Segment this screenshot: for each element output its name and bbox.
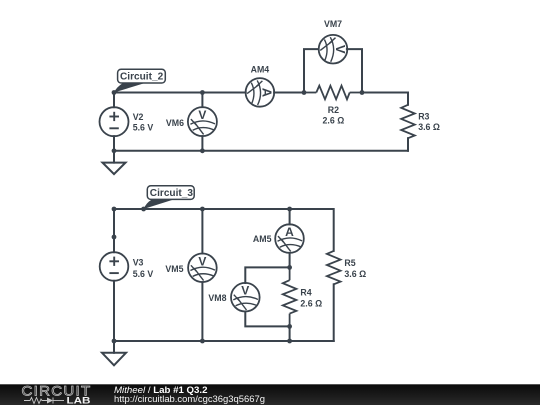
- wire AM5 top lead: [289, 209, 291, 224]
- resistor R4: [283, 267, 297, 326]
- voltage source V3: [100, 252, 129, 281]
- node top-left corner circuit 3: [112, 207, 117, 212]
- voltmeter VM6: [188, 107, 217, 136]
- wire VM5 bottom lead: [201, 282, 203, 341]
- node VM6 bottom: [200, 148, 205, 153]
- wire VM7 left branch: [304, 49, 318, 92]
- node R4 bottom / VM8 bottom: [287, 324, 292, 329]
- resistor R2 value label: [323, 105, 345, 125]
- wire VM8 top branch: [245, 267, 289, 283]
- svg-text:Circuit_2: Circuit_2: [120, 71, 164, 82]
- CircuitLab logo squiggle resistor and diode: [24, 398, 64, 404]
- footer bar: [0, 384, 540, 405]
- node R2 left / VM7 left: [302, 90, 307, 95]
- resistor R3 value label: [418, 112, 440, 132]
- node ground junction circuit 2: [112, 148, 117, 153]
- svg-text:5.6 V: 5.6 V: [133, 123, 154, 133]
- wire VM6 top lead: [201, 93, 203, 108]
- svg-text:2.6 Ω: 2.6 Ω: [323, 116, 345, 126]
- svg-text:R3: R3: [418, 112, 429, 122]
- svg-text:R4: R4: [300, 287, 311, 297]
- voltage source V2 label: [133, 112, 154, 133]
- svg-text:AM4: AM4: [251, 65, 270, 75]
- wire top rail circuit 2 AM4 to R2 node: [274, 92, 304, 94]
- svg-text:Circuit_3: Circuit_3: [150, 188, 194, 199]
- node R4 branch bottom: [287, 339, 292, 344]
- svg-text:VM8: VM8: [208, 293, 226, 303]
- svg-text:AM5: AM5: [253, 234, 272, 244]
- wire V3 top lead: [113, 209, 115, 252]
- svg-text:3.6 Ω: 3.6 Ω: [344, 269, 366, 279]
- resistor R5: [327, 251, 341, 284]
- node VM5 bottom: [200, 339, 205, 344]
- svg-text:VM6: VM6: [166, 118, 184, 128]
- node wire seam left: [112, 235, 117, 240]
- voltage source V3 label: [133, 257, 154, 278]
- resistor R3: [401, 105, 415, 138]
- wire R5 bottom lead: [333, 284, 335, 341]
- junction dots circuit 3: [112, 207, 292, 344]
- node AM5 top: [287, 207, 292, 212]
- node VM6 top: [200, 90, 205, 95]
- svg-text:3.6 Ω: 3.6 Ω: [418, 122, 440, 132]
- resistor R4 value label: [300, 287, 322, 308]
- svg-text:V: V: [241, 284, 249, 298]
- svg-text:LAB: LAB: [67, 396, 91, 405]
- node at Circuit_3 flag: [141, 207, 146, 212]
- node ground junction circuit 3: [112, 339, 117, 344]
- node VM5 top: [200, 207, 205, 212]
- wire VM8 bottom branch: [245, 312, 289, 327]
- voltmeter VM5: [188, 253, 217, 282]
- svg-text:VM7: VM7: [324, 19, 342, 29]
- svg-text:V: V: [333, 45, 348, 54]
- svg-text:V2: V2: [133, 112, 144, 122]
- wire top rail circuit 2 R2 right node to R3 corner: [362, 93, 408, 105]
- node flag Circuit_3: [144, 186, 195, 209]
- svg-text:V: V: [198, 254, 206, 268]
- svg-text:V3: V3: [133, 257, 144, 267]
- svg-text:5.6 V: 5.6 V: [133, 269, 154, 279]
- svg-text:R5: R5: [344, 258, 355, 268]
- voltmeter VM7: [319, 35, 348, 64]
- wire VM5 top lead: [201, 209, 203, 254]
- node AM5 bottom / VM8 top: [287, 265, 292, 270]
- svg-text:A: A: [260, 88, 275, 98]
- ammeter AM5: [275, 224, 304, 253]
- wire ground lead circuit 2: [113, 151, 115, 163]
- wire R4 bottom node to bottom rail: [289, 326, 291, 341]
- junction dots circuit 2: [112, 90, 365, 153]
- resistor R5 value label: [344, 258, 366, 279]
- wire top rail circuit 3: [114, 209, 334, 251]
- svg-text:A: A: [285, 225, 294, 239]
- ammeter AM4: [246, 78, 275, 107]
- svg-text:V: V: [198, 108, 206, 122]
- voltage source V2: [100, 107, 129, 136]
- wire V2 top lead: [113, 93, 115, 108]
- wire ground lead circuit 3: [113, 341, 115, 353]
- node at Circuit_2 flag: [112, 90, 117, 95]
- ground circuit 2: [103, 163, 126, 175]
- resistor R2: [304, 86, 362, 100]
- wire VM6 bottom lead: [201, 136, 203, 151]
- wire AM5 bottom lead: [289, 253, 291, 268]
- ground circuit 3: [102, 353, 126, 366]
- wire top rail circuit 2 left segment: [114, 92, 246, 94]
- node R2 right / VM7 right: [360, 90, 365, 95]
- svg-text:VM5: VM5: [165, 264, 183, 274]
- wire bottom rail circuit 3: [114, 340, 334, 342]
- voltmeter VM8: [231, 283, 260, 312]
- wire V2 bottom lead: [113, 136, 115, 151]
- wire bottom rail circuit 2: [114, 150, 408, 152]
- wire V3 bottom lead: [113, 281, 115, 341]
- wire VM7 right branch: [347, 49, 362, 92]
- svg-text:2.6 Ω: 2.6 Ω: [300, 298, 322, 308]
- node flag Circuit_2: [114, 69, 165, 92]
- wire R3 bottom lead: [407, 138, 409, 151]
- svg-text:http://circuitlab.com/cgc36g3q: http://circuitlab.com/cgc36g3q5667g: [114, 394, 265, 404]
- svg-text:R2: R2: [328, 105, 339, 115]
